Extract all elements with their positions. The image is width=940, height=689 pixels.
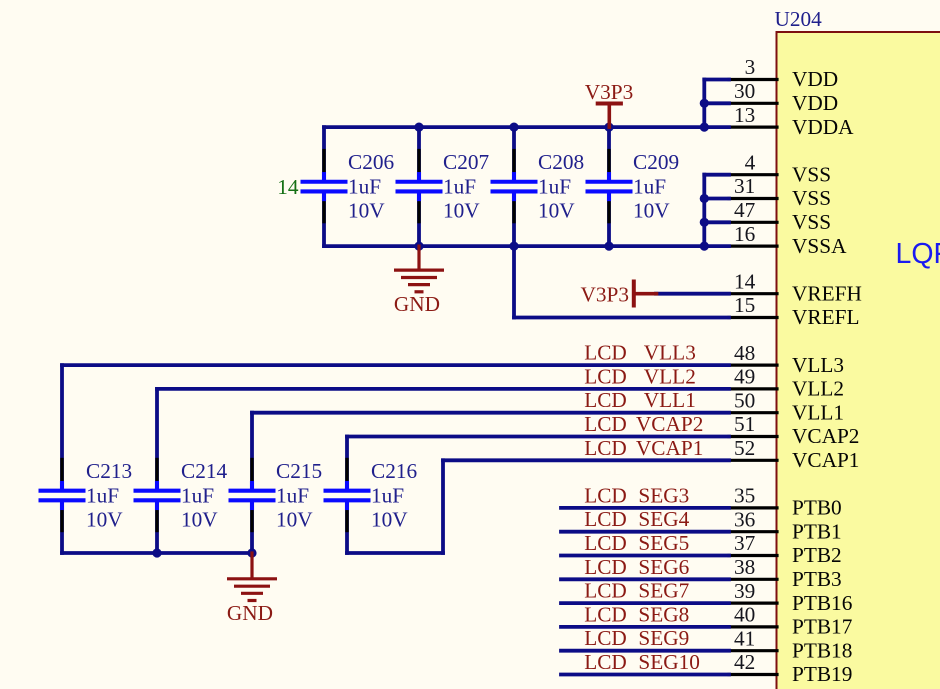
- wire VDD bus vertical: [702, 80, 706, 128]
- svg-text:PTB18: PTB18: [792, 638, 852, 662]
- pin 40 (PTB17): [729, 603, 853, 639]
- pin 14 (VREFH): [729, 269, 862, 305]
- junction (252,553): [247, 548, 256, 557]
- svg-text:50: 50: [734, 388, 755, 412]
- wire VCAP1 vertical: [441, 460, 445, 553]
- svg-text:10V: 10V: [443, 199, 480, 223]
- pin 35 (PTB0): [729, 484, 842, 520]
- wire LCD_SEG pin 36: [561, 530, 729, 534]
- pin 3 (VDD): [729, 55, 838, 91]
- svg-text:VSS: VSS: [792, 162, 831, 186]
- wire VREFH: [656, 292, 729, 296]
- capacitor C213: [39, 459, 133, 532]
- pin 51 (VCAP2): [729, 412, 859, 448]
- pin 31 (VSS): [729, 174, 831, 210]
- svg-text:C207: C207: [443, 150, 490, 174]
- svg-text:35: 35: [734, 484, 755, 508]
- svg-text:VREFL: VREFL: [792, 305, 859, 329]
- wire C207 vertical: [417, 127, 421, 246]
- svg-text:PTB19: PTB19: [792, 662, 852, 686]
- wire gnd rail left: [62, 551, 252, 555]
- svg-text:PTB2: PTB2: [792, 543, 842, 567]
- svg-text:PTB0: PTB0: [792, 496, 842, 520]
- pin 15 (VREFL): [729, 293, 859, 329]
- svg-text:V3P3: V3P3: [580, 283, 629, 307]
- ground GND at x=419: [394, 246, 444, 316]
- svg-text:1uF: 1uF: [181, 483, 214, 507]
- capacitor C207: [396, 150, 490, 223]
- svg-text:C213: C213: [86, 459, 132, 483]
- svg-text:PTB17: PTB17: [792, 615, 853, 639]
- capacitor C206: [301, 150, 395, 223]
- pin 50 (VLL1): [729, 388, 844, 424]
- wire LCD_SEG pin 42: [561, 673, 729, 677]
- junction (514,246.1): [509, 242, 518, 251]
- wire VLL2: [157, 387, 729, 391]
- pin 4 (VSS): [729, 150, 831, 186]
- junction (514,127.1): [509, 123, 518, 132]
- svg-text:VSSA: VSSA: [792, 234, 847, 258]
- svg-text:C216: C216: [371, 459, 418, 483]
- svg-text:LCDVCAP2: LCDVCAP2: [584, 412, 703, 436]
- wire pin31 stub: [704, 197, 729, 201]
- svg-text:10V: 10V: [348, 199, 385, 223]
- wire pin3 stub: [704, 78, 729, 82]
- pin 36 (PTB1): [729, 507, 842, 543]
- svg-text:1uF: 1uF: [443, 174, 476, 198]
- junction (704.3,103.3): [700, 99, 709, 108]
- svg-text:10V: 10V: [371, 508, 408, 532]
- capacitor C208: [491, 150, 585, 223]
- capacitor C216: [324, 459, 418, 532]
- svg-text:4: 4: [745, 150, 756, 174]
- svg-text:LCDVCAP1: LCDVCAP1: [584, 436, 703, 460]
- svg-text:1uF: 1uF: [538, 174, 571, 198]
- junction (157,553): [152, 548, 161, 557]
- wire C206 vertical: [322, 127, 326, 246]
- svg-text:C215: C215: [276, 459, 322, 483]
- pin 13 (VDDA): [729, 103, 854, 139]
- svg-text:10V: 10V: [633, 199, 670, 223]
- junction (704.3,127.1): [700, 123, 709, 132]
- wire pin47 stub: [704, 220, 729, 224]
- svg-text:U204: U204: [775, 7, 823, 31]
- svg-text:13: 13: [734, 103, 755, 127]
- svg-text:1uF: 1uF: [633, 174, 666, 198]
- pin 48 (VLL3): [729, 341, 844, 377]
- wire LCD_SEG pin 40: [561, 625, 729, 629]
- svg-text:36: 36: [734, 507, 756, 531]
- wire VREFL: [514, 316, 729, 320]
- pin 39 (PTB16): [729, 579, 853, 615]
- pin 41 (PTB18): [729, 626, 852, 662]
- svg-text:10V: 10V: [538, 199, 575, 223]
- ground GND at x=252: [227, 553, 277, 625]
- svg-text:VLL2: VLL2: [792, 377, 844, 401]
- wire VLL3: [62, 363, 729, 367]
- svg-text:37: 37: [734, 531, 756, 555]
- svg-text:3: 3: [745, 55, 756, 79]
- svg-text:C209: C209: [633, 150, 679, 174]
- capacitor C214: [134, 459, 228, 532]
- wire VSS bus vertical: [702, 175, 706, 246]
- junction (609,246.1): [604, 242, 613, 251]
- wire C213 vertical: [60, 365, 64, 553]
- svg-text:VDD: VDD: [792, 91, 838, 115]
- svg-text:VCAP2: VCAP2: [792, 424, 859, 448]
- pin 30 (VDD): [729, 79, 838, 115]
- svg-text:GND: GND: [394, 292, 440, 316]
- junction (419,246.1): [414, 242, 423, 251]
- junction (704.3,198.5): [700, 194, 709, 203]
- capacitor C209: [586, 150, 680, 223]
- pin 49 (VLL2): [729, 365, 844, 401]
- svg-text:51: 51: [734, 412, 755, 436]
- svg-text:C208: C208: [538, 150, 584, 174]
- wire C215 vertical: [250, 413, 254, 553]
- svg-text:VLL3: VLL3: [792, 353, 844, 377]
- svg-text:10V: 10V: [181, 508, 218, 532]
- svg-text:VREFH: VREFH: [792, 281, 862, 305]
- wire C208 vertical: [512, 127, 516, 246]
- svg-text:41: 41: [734, 626, 755, 650]
- wire LCD_SEG pin 35: [561, 506, 729, 510]
- wire LCD_SEG pin 38: [561, 577, 729, 581]
- wire LCD_SEG pin 41: [561, 649, 729, 653]
- wire VDD rail: [324, 125, 729, 129]
- svg-text:PTB16: PTB16: [792, 591, 853, 615]
- svg-text:52: 52: [734, 436, 755, 460]
- svg-text:VDDA: VDDA: [792, 115, 854, 139]
- svg-text:10V: 10V: [276, 508, 313, 532]
- svg-text:10V: 10V: [86, 508, 123, 532]
- svg-text:1uF: 1uF: [86, 483, 119, 507]
- svg-text:31: 31: [734, 174, 755, 198]
- svg-text:49: 49: [734, 365, 755, 389]
- wire VLL1: [252, 411, 729, 415]
- pin 52 (VCAP1): [729, 436, 859, 472]
- power V3P3 (top): [585, 80, 634, 127]
- junction (419,127.1): [414, 123, 423, 132]
- svg-text:16: 16: [734, 222, 756, 246]
- capacitor C215: [229, 459, 323, 532]
- svg-text:14: 14: [277, 175, 299, 199]
- svg-text:VSS: VSS: [792, 210, 831, 234]
- svg-text:LCDSEG10: LCDSEG10: [584, 650, 700, 674]
- svg-text:39: 39: [734, 579, 755, 603]
- wire C216 vertical: [345, 437, 349, 554]
- svg-text:47: 47: [734, 198, 756, 222]
- IC U204 body: [777, 32, 940, 689]
- svg-text:PTB3: PTB3: [792, 567, 842, 591]
- svg-text:VSS: VSS: [792, 186, 831, 210]
- svg-text:42: 42: [734, 650, 755, 674]
- svg-text:VLL1: VLL1: [792, 400, 844, 424]
- svg-text:48: 48: [734, 341, 755, 365]
- wire GND rail: [324, 244, 729, 248]
- wire VREFL vertical: [512, 246, 516, 317]
- wire pin30 stub: [704, 101, 729, 105]
- svg-text:C214: C214: [181, 459, 228, 483]
- wire pin4 stub: [704, 173, 729, 177]
- junction (704.3,222.3): [700, 218, 709, 227]
- pin 16 (VSSA): [729, 222, 847, 258]
- svg-text:40: 40: [734, 603, 755, 627]
- svg-text:PTB1: PTB1: [792, 519, 842, 543]
- svg-text:V3P3: V3P3: [585, 80, 634, 104]
- svg-text:1uF: 1uF: [348, 174, 381, 198]
- pin 47 (VSS): [729, 198, 831, 234]
- svg-text:GND: GND: [227, 601, 273, 625]
- wire LCD_SEG pin 39: [561, 601, 729, 605]
- wire C209 vertical: [607, 127, 611, 246]
- svg-text:14: 14: [734, 269, 756, 293]
- wire C214 vertical: [155, 389, 159, 553]
- svg-text:30: 30: [734, 79, 755, 103]
- svg-text:C206: C206: [348, 150, 395, 174]
- svg-text:1uF: 1uF: [276, 483, 309, 507]
- svg-text:VDD: VDD: [792, 67, 838, 91]
- power V3P3 (VREFH): [580, 280, 656, 308]
- wire C216 to VCAP1: [347, 551, 443, 555]
- svg-text:LQFP: LQFP: [896, 238, 940, 270]
- svg-text:15: 15: [734, 293, 755, 317]
- pin 42 (PTB19): [729, 650, 852, 686]
- wire VCAP2: [347, 435, 729, 439]
- pin 37 (PTB2): [729, 531, 842, 567]
- junction (704.3,246.1): [700, 242, 709, 251]
- svg-text:VCAP1: VCAP1: [792, 448, 859, 472]
- junction (609,127.1): [604, 123, 613, 132]
- svg-text:1uF: 1uF: [371, 483, 404, 507]
- wire VCAP1: [443, 458, 729, 462]
- pin 38 (PTB3): [729, 555, 842, 591]
- wire LCD_SEG pin 37: [561, 554, 729, 558]
- svg-text:38: 38: [734, 555, 755, 579]
